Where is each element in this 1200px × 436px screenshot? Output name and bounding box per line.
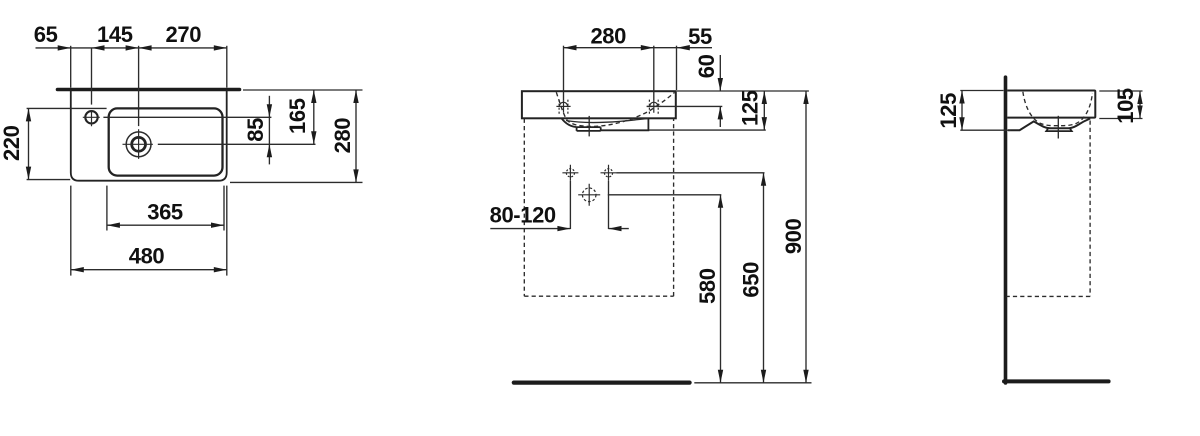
dimension 60 front xyxy=(719,55,721,127)
extension line right edge top xyxy=(226,46,228,88)
extension line bowl bottom right front xyxy=(649,129,766,131)
extension line 80-120 left xyxy=(569,181,571,229)
bowl inner rising edge front xyxy=(566,118,648,122)
extension line left edge top xyxy=(70,46,72,88)
extension line drain level right front xyxy=(608,194,722,196)
extension line 220 bottom xyxy=(27,179,71,181)
bowl underside front xyxy=(562,118,649,131)
svg-text:220: 220 xyxy=(0,125,24,161)
dimension 85 line xyxy=(268,96,270,165)
extension line tap axis left top xyxy=(563,46,565,101)
extension line tap level right front xyxy=(647,105,723,107)
extension line 80-120 right xyxy=(608,181,610,229)
extension line 125 top side xyxy=(960,90,1003,92)
dimension 125 side xyxy=(961,91,963,131)
extension line faucet level right xyxy=(103,116,271,118)
svg-text:280: 280 xyxy=(330,118,355,154)
svg-text:55: 55 xyxy=(688,24,712,49)
extension line bottom edge right xyxy=(230,181,363,183)
dimension 280 line plan xyxy=(355,90,357,182)
extension line 365 right xyxy=(223,186,225,231)
basin body front xyxy=(522,91,676,118)
arrows top chain xyxy=(58,45,227,50)
svg-text:165: 165 xyxy=(285,98,310,134)
wall edge plan (thick) xyxy=(58,88,240,92)
extension line 220 top xyxy=(27,107,107,109)
svg-text:580: 580 xyxy=(695,268,720,304)
floor line front (thick) xyxy=(514,381,690,385)
wall line side (thick) xyxy=(1004,77,1008,383)
foot side xyxy=(1046,128,1072,131)
extension line drain level right xyxy=(158,143,316,145)
hidden tank outline front (dashed) xyxy=(524,119,673,297)
tap hole solid axes front xyxy=(564,101,654,113)
extension line drain top xyxy=(138,46,140,126)
dimension 105 side xyxy=(1139,91,1141,119)
svg-text:280: 280 xyxy=(590,24,626,49)
dimension 580 xyxy=(720,195,722,383)
dimension 280-55 line front xyxy=(564,47,713,49)
fixing hole left xyxy=(562,165,578,181)
drain axis front xyxy=(588,116,590,136)
fixing hole right xyxy=(601,165,617,181)
extension line tap axis right top xyxy=(653,46,655,101)
svg-text:125: 125 xyxy=(738,90,763,126)
svg-text:480: 480 xyxy=(129,243,165,268)
extension line 365 left xyxy=(106,186,108,231)
svg-text:60: 60 xyxy=(694,54,719,78)
svg-text:365: 365 xyxy=(147,200,183,225)
tap hole left front xyxy=(556,100,570,115)
extension line 125 bottom side xyxy=(960,129,1010,131)
dimension 365 line xyxy=(107,224,224,226)
dimension 165 line xyxy=(313,90,315,144)
svg-text:125: 125 xyxy=(936,93,961,129)
bowl underside silhouette side xyxy=(1008,119,1090,131)
dimension chain 65-145-270 line xyxy=(36,47,227,49)
svg-text:65: 65 xyxy=(34,22,58,47)
svg-text:80-120: 80-120 xyxy=(490,202,556,227)
dimension 125 front xyxy=(763,91,765,130)
bowl hidden contour front (dashed) xyxy=(556,92,674,126)
extension line top edge right xyxy=(243,89,363,91)
extension line 480 right xyxy=(226,186,228,276)
svg-text:105: 105 xyxy=(1113,88,1138,124)
drain axis side xyxy=(1057,116,1059,139)
extension line 480 left xyxy=(70,186,72,276)
floor line side (thick) xyxy=(1004,379,1109,383)
dimension 480 line xyxy=(71,269,227,271)
dimension 220 line xyxy=(28,108,30,179)
svg-text:900: 900 xyxy=(781,218,806,254)
basin outline plan xyxy=(71,90,227,181)
extension line basin right edge top xyxy=(676,46,678,90)
hidden outline side (dashed) xyxy=(1007,121,1091,297)
bowl hidden contour side (dashed) xyxy=(1023,92,1093,126)
extension line 105 top side xyxy=(1099,90,1142,92)
extension line 105 bottom side xyxy=(1099,118,1142,120)
bowl outline plan xyxy=(109,108,223,175)
dimension 650 xyxy=(763,173,765,383)
extension line top edge right front xyxy=(677,90,809,92)
faucet hole plan xyxy=(83,110,100,126)
extension line fixing level right xyxy=(617,172,765,174)
dimension 900 xyxy=(805,91,807,383)
basin profile side xyxy=(1007,91,1095,118)
drain plan xyxy=(123,129,153,159)
drain mark front xyxy=(578,184,600,206)
svg-text:270: 270 xyxy=(166,22,202,47)
tap hole right front xyxy=(647,100,661,115)
svg-text:650: 650 xyxy=(739,262,764,298)
extension line faucet top xyxy=(91,48,93,105)
svg-text:85: 85 xyxy=(243,118,268,142)
dimension 80-120 line xyxy=(490,228,629,230)
svg-text:145: 145 xyxy=(97,22,133,47)
floor extension line front xyxy=(694,382,811,384)
